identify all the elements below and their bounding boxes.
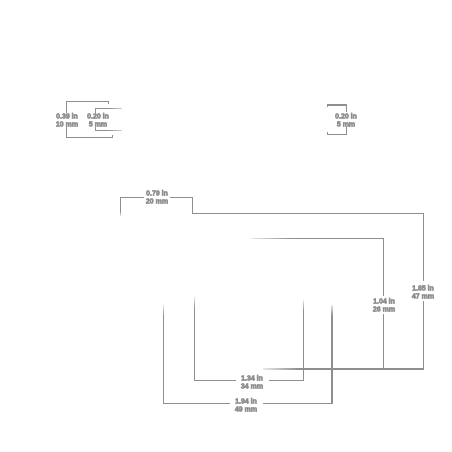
dim E label 1.04 in / 26 mm xyxy=(354,297,414,313)
dim D label 0.79 in / 20 mm xyxy=(127,189,187,205)
dim H dimension line right segment xyxy=(263,403,333,404)
dim H left extension line (fades up) xyxy=(163,305,164,404)
dim F dimension line lower segment xyxy=(423,301,424,370)
dim E dimension line lower segment xyxy=(383,314,384,370)
dim G right extension line (fades up) xyxy=(303,300,304,381)
dim A bottom extension line xyxy=(66,137,113,138)
dim C bottom extension end tick xyxy=(327,132,328,135)
bottom edge reference line (fades in from left) xyxy=(263,368,424,369)
dim D dimension line right segment xyxy=(170,197,193,198)
dim C label 0.20 in / 5 mm xyxy=(316,112,376,128)
dim A top extension end tick xyxy=(108,101,109,104)
dim A top extension line xyxy=(66,101,109,102)
dim D right extension line xyxy=(192,197,193,214)
dim B dimension line upper segment xyxy=(95,108,96,113)
dim A dimension line lower segment xyxy=(66,127,67,138)
dim A dimension line upper segment xyxy=(66,101,67,113)
dim G dimension line right segment xyxy=(269,380,305,381)
dim B bottom extension line xyxy=(95,130,122,131)
dim H label 1.94 in / 49 mm xyxy=(216,397,276,413)
top edge reference line xyxy=(192,213,424,214)
dim C dimension line upper segment xyxy=(346,104,347,112)
dim B top extension line xyxy=(95,108,122,109)
dim F label 1.85 in / 47 mm xyxy=(393,284,452,300)
dim B label 0.20 in / 5 mm xyxy=(68,112,128,128)
dim H right extension line (fades up) xyxy=(331,305,332,405)
dim C top extension end tick xyxy=(327,104,328,107)
dim H dimension line left segment xyxy=(163,403,230,404)
mid edge reference line (fades in from left) xyxy=(251,238,385,239)
dim G label 1.34 in / 34 mm xyxy=(222,374,282,390)
dim A label 0.39 in / 10 mm xyxy=(37,112,97,128)
dim G dimension line left segment xyxy=(194,380,236,381)
dim C bottom extension line xyxy=(327,134,347,135)
dim D left extension line (fades down) xyxy=(120,197,121,216)
dim F dimension line upper segment xyxy=(423,213,424,281)
dim E dimension line upper segment xyxy=(383,238,384,296)
dim D dimension line left segment xyxy=(120,197,144,198)
dim B dimension line lower segment xyxy=(95,127,96,131)
dim G left extension line (fades up) xyxy=(194,297,195,381)
dim C dimension line lower segment xyxy=(346,127,347,135)
dim C top extension line xyxy=(327,104,347,105)
dim A bottom extension end tick xyxy=(112,135,113,138)
